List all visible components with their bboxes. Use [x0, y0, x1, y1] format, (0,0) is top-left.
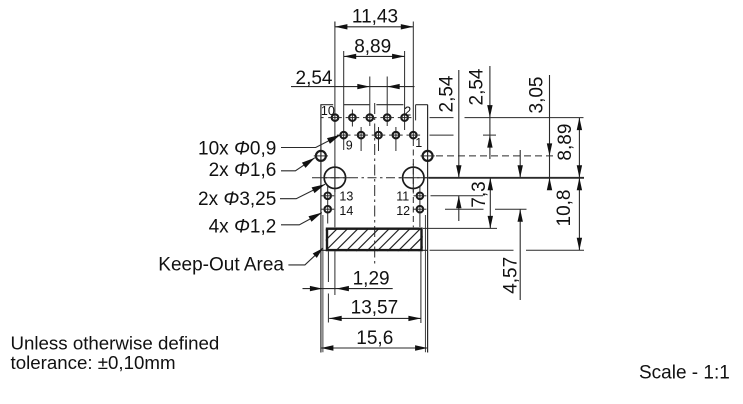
pin 5 hole (0.9mm)	[372, 132, 386, 139]
pin 4 hole (0.9mm)	[380, 114, 394, 121]
dimension 8,89 vertical	[555, 118, 582, 178]
svg-text:10,8: 10,8	[554, 190, 575, 227]
extension line left mounting hole column	[334, 251, 336, 295]
connector body outline	[320, 105, 427, 353]
keep-out area hatched rectangle	[304, 228, 442, 252]
svg-text:12: 12	[396, 204, 410, 218]
svg-text:tolerance: ±0,10mm: tolerance: ±0,10mm	[11, 352, 176, 373]
dimension 11,43	[335, 6, 413, 29]
dimension 10,8	[554, 178, 582, 251]
pin 2 hole (0.9mm)	[398, 114, 412, 121]
extension line pins 13/11 row	[431, 195, 484, 197]
centerline pin 9 column	[343, 51, 345, 150]
extension line hatch right edge	[420, 251, 422, 323]
centerline pin 5 column	[378, 127, 380, 151]
tolerance note	[11, 333, 220, 373]
pin 3 hole (0.9mm)	[389, 132, 403, 139]
dimension 7,3	[469, 178, 493, 229]
pin 7 hole (0.9mm)	[354, 132, 368, 139]
pin 10 hole (0.9mm)	[321, 114, 342, 121]
svg-text:1,29: 1,29	[353, 269, 390, 290]
dimension 2,54 top	[291, 68, 415, 89]
centerline pin 1 / right mounting hole column	[412, 22, 414, 228]
dimension 4,57	[500, 150, 523, 300]
centerline pin 2 column	[404, 51, 406, 130]
centerline pins 13/14 column	[327, 187, 329, 224]
leader 2x dia 3,25	[280, 184, 325, 199]
dimension 2,54 (pin row pitch)	[466, 66, 492, 159]
leader 4x dia 1,2	[281, 213, 322, 225]
extension line body bottom	[430, 249, 585, 251]
svg-text:14: 14	[339, 204, 353, 218]
pin 11 hole (1.2mm)	[413, 193, 426, 200]
pin 12 hole (1.2mm)	[413, 206, 426, 213]
pin 14 hole (1.2mm)	[321, 206, 334, 213]
svg-text:7,3: 7,3	[469, 181, 490, 207]
left 1.6mm hole	[314, 151, 328, 161]
pin 8 hole (0.9mm)	[346, 114, 360, 121]
centerline pin 4 column	[386, 77, 388, 127]
centerline pin 3 column	[395, 127, 397, 151]
pin 6 hole (0.9mm)	[363, 114, 377, 121]
svg-text:9: 9	[346, 139, 353, 153]
extension line left of keep-out	[322, 215, 324, 352]
extension line bottom pin row	[430, 134, 497, 136]
svg-text:Scale - 1:1: Scale - 1:1	[639, 363, 730, 384]
dimension 11,43 extension lines	[334, 22, 336, 27]
leader 2x dia 1,6	[281, 158, 315, 171]
svg-text:2,54: 2,54	[466, 68, 487, 105]
svg-text:1: 1	[415, 136, 422, 150]
dimension 2,54 (hole rows to pins 13/11)	[436, 70, 461, 221]
right 1.6mm hole	[421, 151, 435, 161]
svg-text:2x Φ1,6: 2x Φ1,6	[209, 160, 277, 181]
svg-text:2: 2	[404, 104, 411, 118]
dimension 13,57	[329, 298, 421, 322]
pin 9 hole (0.9mm)	[337, 132, 351, 139]
centerline pin 10 / left mounting hole column	[334, 22, 336, 228]
svg-text:2,54: 2,54	[436, 75, 457, 112]
dimension 15,6	[321, 328, 428, 351]
svg-text:8,89: 8,89	[555, 124, 576, 161]
dimension 1,29	[303, 269, 393, 292]
extension line main centerline	[429, 177, 585, 179]
centerline pin 6 column	[369, 77, 371, 127]
svg-text:10x Φ0,9: 10x Φ0,9	[198, 138, 276, 159]
svg-text:Keep-Out Area: Keep-Out Area	[158, 255, 284, 276]
right 3.25mm mounting hole	[399, 164, 427, 192]
extension line right of keep-out	[424, 215, 426, 352]
vertical centerline of body	[374, 103, 376, 265]
dimension 8,89 top	[344, 36, 405, 59]
pin 13 hole (1.2mm)	[321, 193, 334, 200]
svg-text:4,57: 4,57	[500, 257, 521, 294]
horizontal centerline through mounting holes	[312, 177, 429, 179]
centerline pin 7 column	[360, 127, 362, 151]
extension line top pin row	[430, 117, 584, 119]
pin 1 hole (0.9mm)	[407, 132, 421, 139]
leader 10x dia 0,9	[281, 135, 341, 148]
svg-text:8,89: 8,89	[354, 36, 391, 57]
centerline pins 11/12 column	[419, 187, 421, 227]
svg-text:10: 10	[321, 104, 335, 118]
leader keep-out area	[288, 248, 322, 265]
left 3.25mm mounting hole	[321, 164, 349, 192]
svg-text:11: 11	[396, 189, 409, 203]
extension line pins 14/12 row	[445, 208, 527, 210]
dimension 3,05	[526, 75, 552, 190]
centerline pin 8 column	[351, 110, 353, 127]
svg-text:13: 13	[339, 189, 353, 203]
svg-text:2,54: 2,54	[296, 68, 333, 89]
svg-text:3,05: 3,05	[526, 77, 547, 114]
svg-text:15,6: 15,6	[356, 328, 393, 349]
svg-text:13,57: 13,57	[351, 298, 399, 319]
extension line 1.6mm holes (dashed)	[436, 155, 557, 157]
svg-text:4x Φ1,2: 4x Φ1,2	[209, 216, 277, 237]
extension line hatch left edge	[327, 251, 329, 322]
svg-text:2x Φ3,25: 2x Φ3,25	[198, 189, 276, 210]
svg-text:11,43: 11,43	[352, 6, 398, 27]
extension line keep-out top	[423, 227, 497, 229]
svg-text:Unless otherwise defined: Unless otherwise defined	[11, 333, 220, 354]
